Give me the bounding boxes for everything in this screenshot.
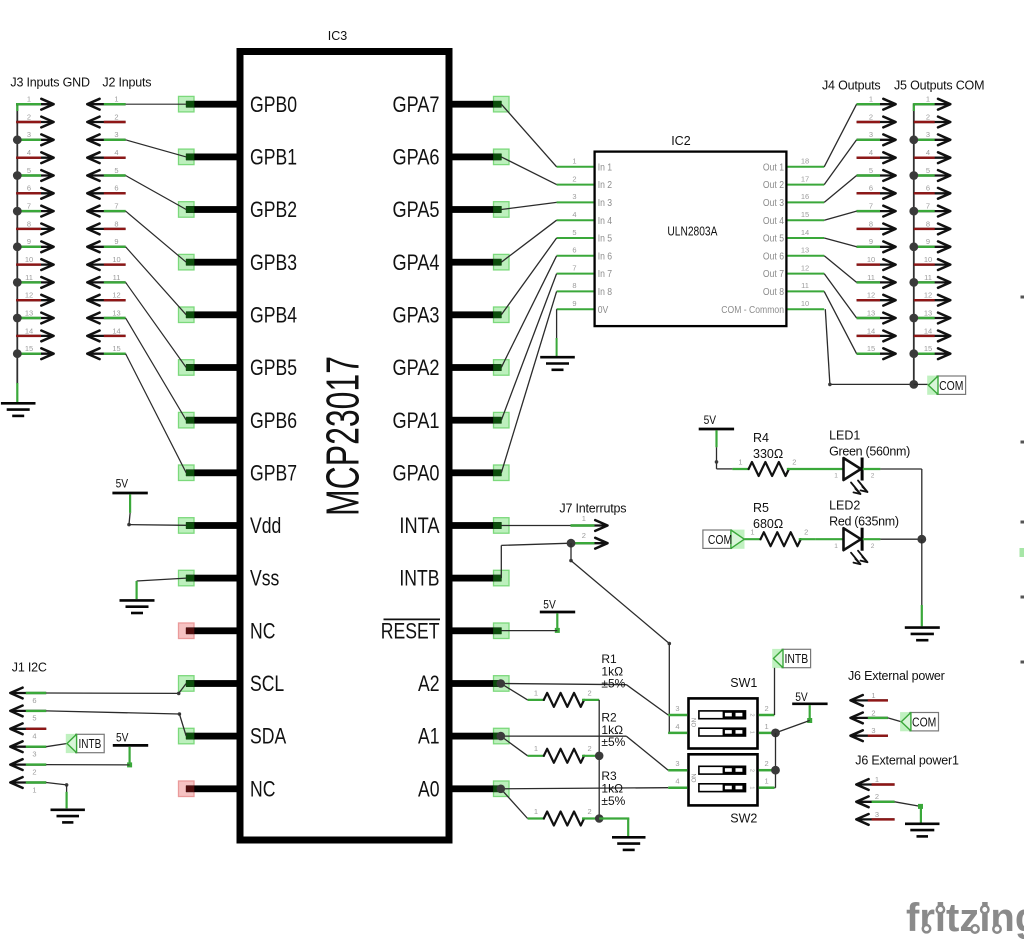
node SW2 pin2 junction (771, 766, 780, 775)
connector J4 pin 4 (857, 148, 896, 163)
IC3 pin GPB3 (left row 4) (179, 250, 298, 275)
svg-text:1: 1 (869, 95, 873, 104)
ground GND6 (LEDs) (905, 628, 940, 641)
power 5V (Vdd) (112, 477, 147, 513)
connector J3 pin 4 (16, 148, 53, 163)
net label COM (J6) (900, 712, 938, 731)
connector J4 pin 12 (857, 291, 896, 306)
svg-text:Out 2: Out 2 (763, 179, 784, 191)
connector J2 pin 4 (87, 148, 125, 163)
resistor R4 (732, 457, 804, 476)
SW1 pin 3 (668, 704, 687, 715)
connector J3 label (10, 76, 90, 90)
connector J4 pin 5 (857, 166, 896, 181)
connector J4 pin 8 (857, 219, 896, 234)
label R2 (601, 711, 625, 750)
svg-text:Out 5: Out 5 (763, 233, 784, 245)
IC3 pin GPA0 (right row 8) (393, 460, 510, 485)
wire GPA3 to In 5 (501, 238, 556, 315)
ground GND1 (J3) (1, 403, 36, 416)
ground GND5 (R3) (612, 837, 646, 850)
svg-text:A2: A2 (418, 671, 440, 696)
svg-text:9: 9 (27, 237, 31, 246)
IC2 pin 1 In 1 (557, 157, 613, 174)
svg-text:3: 3 (675, 759, 679, 768)
IC3 pin NC (left row 14) (179, 776, 276, 801)
svg-text:10: 10 (801, 299, 809, 308)
svg-text:1: 1 (738, 457, 742, 466)
svg-text:9: 9 (926, 237, 930, 246)
IC2 pin 10 COM - Common (721, 299, 824, 316)
edge mark 5 (1021, 596, 1024, 599)
connector J4 pin 6 (857, 184, 896, 199)
svg-text:13: 13 (924, 308, 932, 317)
connector J4 pin 2 (857, 112, 896, 127)
connector J1 pin 1 (10, 777, 46, 794)
label R1 (601, 652, 625, 691)
IC3 pin GPB4 (left row 5) (179, 302, 298, 327)
svg-text:680Ω: 680Ω (753, 517, 783, 531)
svg-text:±5%: ±5% (601, 794, 625, 808)
resistor R1 (528, 688, 600, 707)
svg-text:14: 14 (924, 326, 932, 335)
connector J2 pin 9 (87, 237, 125, 252)
IC3 pin GPA3 (right row 5) (393, 302, 510, 327)
IC3 pin GPA7 (right row 1) (393, 92, 510, 117)
svg-text:2: 2 (875, 792, 879, 801)
svg-text:GPA1: GPA1 (393, 408, 440, 433)
wire J2 pin 13 to GPB6 (126, 318, 187, 420)
IC3 pin GPA2 (right row 6) (393, 355, 510, 380)
svg-text:In 7: In 7 (598, 268, 613, 280)
svg-text:In 5: In 5 (598, 233, 613, 245)
svg-text:7: 7 (27, 202, 31, 211)
svg-text:9: 9 (572, 299, 576, 308)
ground GND4 (J1) (51, 810, 85, 823)
svg-text:13: 13 (801, 246, 809, 255)
svg-text:14: 14 (25, 326, 33, 335)
svg-text:10: 10 (867, 255, 875, 264)
svg-text:R5: R5 (753, 501, 769, 515)
connector J5 pin 5 (909, 166, 950, 181)
connector J3 pin 11 (13, 273, 54, 288)
wire 5V to Vdd (127, 513, 186, 526)
svg-text:Out 6: Out 6 (763, 250, 784, 262)
IC2 pin 8 In 8 (557, 281, 613, 298)
svg-text:7: 7 (869, 202, 873, 211)
connector J2 pin 3 (87, 130, 125, 145)
connector J5 label (894, 79, 984, 93)
svg-text:Vss: Vss (250, 566, 279, 591)
IC3 pin A2 (right row 12) (418, 671, 509, 696)
edge mark 6 (1021, 661, 1024, 664)
connector J4 pin 13 (857, 308, 896, 323)
svg-text:5: 5 (926, 166, 930, 175)
connector J3 pin 13 (13, 308, 54, 323)
wire INTB flag to SW1 pin 2 (773, 668, 775, 715)
wire J2 pin 11 to GPB5 (126, 282, 187, 367)
svg-text:4: 4 (572, 210, 576, 219)
wire INTA to J7 pin 1 (501, 525, 570, 527)
svg-text:MCP23017: MCP23017 (316, 356, 368, 516)
connector J7 pin 2 (571, 531, 608, 549)
svg-text:8: 8 (114, 219, 118, 228)
connector J6 pin 2 (851, 708, 888, 723)
svg-text:5: 5 (114, 166, 118, 175)
svg-text:3: 3 (572, 192, 576, 201)
svg-text:15: 15 (112, 344, 120, 353)
svg-text:3: 3 (871, 726, 875, 735)
power 5V (RESET) (540, 598, 575, 633)
svg-text:ON: ON (692, 718, 698, 727)
IC3 pin INTA (right row 9) (399, 513, 509, 538)
connector J6-1 pin 1 (856, 775, 894, 790)
svg-text:Out 3: Out 3 (763, 197, 784, 209)
wire GPA1 to In 7 (501, 274, 556, 421)
edge mark 2 (1021, 441, 1024, 444)
svg-text:12: 12 (801, 263, 809, 272)
svg-text:SDA: SDA (250, 724, 286, 749)
SW1 pin 1 (759, 722, 775, 733)
wire resistor divider bus R1-R2-R3 (595, 700, 604, 823)
svg-text:1: 1 (27, 95, 31, 104)
connector J4 label (822, 79, 880, 93)
wire Out 6 to J4 pin 11 (824, 256, 856, 283)
edge mark 1 (1021, 296, 1024, 299)
svg-text:IC2: IC2 (671, 134, 691, 148)
svg-text:1: 1 (871, 691, 875, 700)
svg-text:6: 6 (572, 246, 576, 255)
IC3 pin Vss (left row 10) (179, 566, 280, 591)
svg-text:GPA2: GPA2 (393, 355, 440, 380)
svg-text:4: 4 (926, 148, 930, 157)
power 5V (J1 pin 2) (113, 731, 148, 768)
svg-text:J7 Interrutps: J7 Interrutps (559, 501, 626, 515)
ground GND3 (Vss) (120, 600, 155, 613)
svg-text:SW1: SW1 (730, 676, 757, 690)
connector J5 pin 14 (914, 326, 951, 341)
svg-text:GPB5: GPB5 (250, 355, 297, 380)
svg-text:1: 1 (834, 543, 838, 550)
connector J3 pin 1 (16, 95, 53, 110)
svg-text:INTB: INTB (399, 566, 439, 591)
IC2 pin 15 Out 4 (763, 210, 824, 227)
connector J6 pin 1 (851, 691, 888, 706)
SW1 pin 4 (668, 722, 687, 733)
wire J1 pin 2 to 5V (46, 764, 129, 766)
connector J3 pin 6 (16, 184, 53, 199)
connector J2 pin 12 (87, 291, 125, 306)
SW2 pin 1 (759, 777, 775, 788)
resistor R2 (528, 744, 600, 763)
connector J4 pin 15 (857, 344, 896, 359)
svg-text:7: 7 (114, 202, 118, 211)
node A2 junction (497, 679, 506, 688)
label LED2 (829, 499, 899, 529)
svg-text:In 2: In 2 (598, 179, 613, 191)
IC3 pin GPB6 (left row 7) (179, 408, 298, 433)
svg-text:5V: 5V (116, 477, 129, 491)
svg-text:15: 15 (25, 344, 33, 353)
wire GPA5 to In 3 (501, 202, 556, 209)
svg-text:GPA5: GPA5 (393, 197, 440, 222)
svg-text:13: 13 (867, 308, 875, 317)
connector J2 pin 14 (87, 326, 125, 341)
connector J5 pin 11 (909, 273, 950, 288)
connector J5 pin 7 (909, 202, 950, 217)
svg-text:15: 15 (867, 344, 875, 353)
connector J5 pin 8 (914, 219, 951, 234)
IC3 pin GPB2 (left row 3) (179, 197, 298, 222)
connector J2 pin 8 (87, 219, 125, 234)
IC2 pin 5 In 5 (557, 228, 613, 245)
svg-text:GPA4: GPA4 (393, 250, 440, 275)
connector J4 pin 7 (857, 202, 896, 217)
svg-text:2: 2 (582, 531, 586, 540)
IC2 pin 7 In 7 (557, 263, 613, 280)
svg-text:GPB2: GPB2 (250, 197, 297, 222)
svg-text:6: 6 (869, 184, 873, 193)
svg-text:4: 4 (675, 777, 679, 786)
wire LED1 to common node (880, 469, 921, 539)
svg-text:2: 2 (871, 473, 875, 480)
svg-text:In 1: In 1 (598, 161, 613, 173)
svg-text:4: 4 (32, 732, 36, 741)
svg-text:15: 15 (924, 344, 932, 353)
IC3 pin GPA1 (right row 7) (393, 408, 510, 433)
svg-text:Green (560nm): Green (560nm) (829, 445, 910, 459)
wire Out 3 to J4 pin 5 (824, 176, 856, 203)
svg-text:4: 4 (675, 722, 679, 731)
svg-text:1: 1 (572, 157, 576, 166)
wire R4 to LED1 (804, 468, 843, 470)
IC2 pin 16 Out 3 (763, 192, 824, 209)
svg-text:6: 6 (32, 696, 36, 705)
svg-text:5V: 5V (116, 731, 129, 745)
svg-text:Out 7: Out 7 (763, 268, 784, 280)
svg-text:In 3: In 3 (598, 197, 613, 209)
IC3 pin NC (left row 11) (179, 618, 276, 643)
svg-text:RESET: RESET (381, 618, 440, 643)
connector J5 pin 2 (914, 112, 951, 127)
wire J1 pin 6 to SCL (46, 684, 186, 696)
svg-text:Red (635nm): Red (635nm) (829, 515, 899, 529)
svg-text:2: 2 (588, 688, 592, 697)
wire A0 to R3 and SW2 pin 4 (501, 788, 668, 819)
svg-text:In 8: In 8 (598, 286, 613, 298)
svg-text:GPA6: GPA6 (393, 145, 440, 170)
wire 0V to ground (556, 309, 558, 356)
IC2 pin 6 In 6 (557, 246, 613, 263)
svg-text:GPB6: GPB6 (250, 408, 297, 433)
svg-text:2: 2 (749, 713, 755, 716)
IC3 pin SCL (left row 12) (179, 671, 285, 696)
connector J3 pin 2 (16, 112, 53, 127)
svg-text:7: 7 (926, 202, 930, 211)
switch SW2 body (689, 754, 758, 825)
LED LED2 (834, 528, 880, 565)
connector J2 label (102, 76, 151, 90)
svg-text:INTB: INTB (784, 651, 808, 666)
svg-text:3: 3 (926, 130, 930, 139)
svg-text:J1 I2C: J1 I2C (12, 661, 47, 675)
IC2 pin 17 Out 2 (763, 174, 824, 191)
wire INTB net to SW1 pin 4 (569, 543, 671, 733)
IC2 pin 18 Out 1 (763, 157, 824, 174)
svg-text:1: 1 (534, 744, 538, 753)
power 5V (SW1) (792, 690, 827, 723)
svg-text:IC3: IC3 (328, 29, 348, 43)
node LED common junction (917, 535, 926, 544)
connector J5 pin 12 (914, 291, 951, 306)
svg-text:5: 5 (32, 714, 36, 723)
wire SW1 pin 1 to SW2 pins 2 and 1 (774, 733, 775, 788)
wire 5V to RESET (501, 630, 557, 632)
wire GPA2 to In 6 (501, 256, 556, 368)
svg-text:1: 1 (765, 722, 769, 731)
wire J6-1 pin 2 to ground (895, 802, 923, 823)
svg-text:NC: NC (250, 618, 275, 643)
svg-text:COM: COM (708, 532, 732, 547)
wire LED2 to common node (880, 538, 921, 540)
svg-text:J2 Inputs: J2 Inputs (102, 76, 151, 90)
svg-text:INTA: INTA (399, 513, 439, 538)
svg-text:J5 Outputs COM: J5 Outputs COM (894, 79, 984, 93)
connector J3 pin 12 (16, 291, 53, 306)
LED LED1 (834, 458, 880, 495)
op IC3 body MCP23017 (240, 29, 449, 840)
svg-text:10: 10 (112, 255, 120, 264)
svg-text:8: 8 (869, 219, 873, 228)
IC3 pin Vdd (left row 9) (179, 513, 282, 538)
connector J3 pin 5 (13, 166, 54, 181)
svg-text:14: 14 (112, 326, 120, 335)
svg-text:14: 14 (867, 326, 875, 335)
svg-text:12: 12 (25, 291, 33, 300)
svg-text:6: 6 (27, 184, 31, 193)
svg-text:Vdd: Vdd (250, 513, 281, 538)
resistor R5 (744, 528, 816, 547)
svg-text:5: 5 (572, 228, 576, 237)
label R4 (753, 431, 783, 461)
svg-text:NC: NC (250, 776, 275, 801)
power 5V (R4) (699, 413, 734, 447)
svg-text:4: 4 (114, 148, 118, 157)
svg-text:2: 2 (869, 112, 873, 121)
connector J6-1 label (855, 753, 959, 767)
svg-text:A0: A0 (418, 776, 440, 801)
svg-text:1: 1 (765, 777, 769, 786)
connector J2 pin 13 (87, 308, 125, 323)
IC3 pin GPB1 (left row 2) (179, 145, 298, 170)
IC3 pin GPA6 (right row 2) (393, 145, 510, 170)
connector J5 pin 3 (909, 130, 950, 145)
wire Out 1 to J4 pin 1 (824, 104, 856, 167)
svg-text:14: 14 (801, 228, 809, 237)
connector J3 pin 15 (13, 344, 54, 359)
wire J2 pin 15 to GPB7 (126, 354, 187, 473)
wire J2 pin 9 to GPB4 (126, 247, 187, 315)
svg-text:8: 8 (27, 219, 31, 228)
svg-text:1: 1 (749, 731, 755, 734)
connector J5 pin 10 (914, 255, 951, 270)
wire R5 to LED2 (816, 538, 843, 540)
connector J6-1 pin 2 (856, 792, 894, 807)
svg-text:9: 9 (869, 237, 873, 246)
connector J5 pin 1 (914, 95, 951, 110)
wire GPA4 to In 4 (501, 220, 556, 262)
SW2 pin 3 (668, 759, 687, 770)
svg-text:8: 8 (926, 219, 930, 228)
label LED1 (829, 429, 910, 459)
IC3 pin GPB0 (left row 1) (179, 92, 298, 117)
connector J1 label (12, 661, 47, 675)
svg-text:9: 9 (114, 237, 118, 246)
connector J6 pin 3 (851, 726, 888, 741)
svg-text:Out 4: Out 4 (763, 215, 784, 227)
svg-text:16: 16 (801, 192, 809, 201)
net label COM (R5) (703, 530, 745, 549)
IC3 pin RESET (right row 11) (381, 618, 509, 643)
svg-text:J6 External power: J6 External power (848, 669, 945, 683)
svg-text:3: 3 (875, 810, 879, 819)
IC3 pin INTB (right row 10) (399, 566, 509, 591)
connector J1 pin 2 (10, 759, 46, 776)
watermark fritzing logo (906, 896, 1024, 939)
svg-text:GPA3: GPA3 (393, 302, 440, 327)
IC3 pin GPB7 (left row 8) (179, 460, 298, 485)
wire J1 pin 3 to INTB flag (46, 744, 67, 747)
connector J4 pin 3 (857, 130, 896, 145)
connector J2 pin 15 (87, 344, 125, 359)
svg-text:COM: COM (912, 714, 936, 729)
wire J1 pin 1 to ground (46, 783, 68, 809)
op IC2 body ULN2803A (595, 134, 787, 326)
wire 5V to R4 (715, 447, 733, 469)
ground GND7 (J6-1) (905, 824, 940, 837)
connector J5 pin 6 (914, 184, 951, 199)
wire R3 to ground (599, 819, 629, 837)
wire 5V to SW1 pin 1 (776, 721, 810, 733)
connector J4 pin 10 (857, 255, 896, 270)
wire GPA0 to In 8 (501, 291, 556, 472)
connector J1 pin 6 (10, 688, 46, 705)
svg-text:1: 1 (834, 473, 838, 480)
IC3 pin GPA4 (right row 4) (393, 250, 510, 275)
connector J2 pin 1 (87, 95, 125, 110)
svg-text:5V: 5V (795, 690, 808, 704)
SW1 pin 2 (759, 704, 775, 715)
wire J2 pin 5 to GPB2 (126, 176, 187, 210)
connector J2 pin 2 (87, 112, 125, 127)
connector J3 pin 3 (13, 130, 54, 145)
wire Out 4 to J4 pin 7 (824, 211, 856, 220)
svg-text:2: 2 (114, 112, 118, 121)
svg-text:R4: R4 (753, 431, 769, 445)
svg-text:GPB4: GPB4 (250, 302, 297, 327)
svg-text:3: 3 (27, 130, 31, 139)
svg-text:12: 12 (867, 291, 875, 300)
node A1 junction (497, 732, 506, 741)
IC2 pin 3 In 3 (557, 192, 613, 209)
wire Vss to ground (137, 578, 187, 599)
svg-text:2: 2 (32, 767, 36, 776)
svg-text:INTB: INTB (79, 737, 102, 751)
svg-text:13: 13 (112, 308, 120, 317)
wire Out 2 to J4 pin 3 (824, 140, 856, 185)
svg-text:13: 13 (25, 308, 33, 317)
svg-text:GPB1: GPB1 (250, 145, 297, 170)
